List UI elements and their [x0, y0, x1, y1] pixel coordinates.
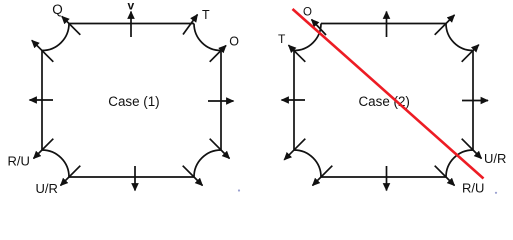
- red diagonal line (square2): [293, 9, 484, 179]
- svg-text:R/U: R/U: [8, 154, 30, 169]
- svg-text:U/R: U/R: [36, 181, 58, 196]
- arrow v (square1 top edge midpoint, points up): [130, 12, 132, 38]
- arrow square2 left edge midpoint, points left: [282, 99, 306, 101]
- svg-text:Q: Q: [52, 2, 63, 17]
- arrow square1 right edge midpoint, points right: [208, 100, 234, 102]
- corner arc square2 top-left: [294, 24, 321, 51]
- arrow O (square1 TR, right edge end, points up-right): [210, 46, 226, 62]
- arrow square2 bottom edge midpoint, points down: [386, 166, 388, 191]
- arrow square2 top edge midpoint, points up: [386, 12, 388, 38]
- wire: square1 top edge: [69, 23, 194, 25]
- wire: square2 right edge: [472, 51, 474, 151]
- wire: square2 top edge: [321, 23, 446, 25]
- wire: square1 bottom edge: [69, 176, 194, 178]
- svg-text:U/R: U/R: [484, 151, 506, 166]
- svg-text:T: T: [278, 32, 286, 46]
- arrow R/U (square2 BR, bottom edge end, points down-right): [435, 166, 455, 186]
- corner arc square2 bottom-left: [294, 150, 321, 177]
- corner arc square1 bottom-right: [194, 150, 221, 177]
- arrow square2 TR right edge end, points up-right: [462, 45, 479, 62]
- arrow U/R (square2 BR, right edge end, points down-right): [462, 139, 482, 159]
- arrow square2 BL left edge end, points down-left: [284, 139, 305, 160]
- svg-text:Case (1): Case (1): [108, 94, 159, 109]
- arrow square1 TL left edge end, points up-left: [32, 40, 54, 62]
- wire: square1 left edge: [41, 51, 43, 151]
- corner arc square1 top-right: [194, 24, 221, 51]
- corner arc square2 top-right: [446, 24, 473, 51]
- wire: square1 right edge: [220, 51, 222, 151]
- arrow square2 right edge midpoint, points right: [462, 100, 488, 102]
- stray dot near square1: [238, 189, 240, 191]
- svg-text:T: T: [202, 8, 210, 22]
- wire: square2 left edge: [293, 51, 295, 151]
- arrow square1 BR right edge end, points down-right: [210, 139, 230, 159]
- stray dot near square2: [495, 192, 497, 194]
- corner arc square1 top-left: [42, 24, 69, 51]
- arrow O (square2 TL, top edge end, points up-left): [312, 20, 327, 36]
- corner arc square2 bottom-right: [446, 150, 473, 177]
- svg-text:O: O: [303, 7, 312, 19]
- arrow square1 left edge midpoint, points left: [30, 99, 54, 101]
- arrow square1 bottom edge midpoint, points down: [134, 166, 136, 191]
- arrow square1 BR bottom edge end, points down-right: [183, 166, 203, 186]
- arrow U/R (square1 BL, bottom edge end, points down-left): [61, 166, 81, 186]
- wire: square2 bottom edge: [321, 176, 446, 178]
- arrow square2 TR top edge end, points up-right: [435, 15, 455, 35]
- svg-text:R/U: R/U: [462, 180, 484, 195]
- svg-text:O: O: [229, 35, 239, 49]
- arrow square2 BL bottom edge end, points down-left: [313, 166, 333, 186]
- corner arc square1 bottom-left: [42, 150, 69, 177]
- arrow R/U (square1 BL, left edge end, points down-left): [34, 139, 54, 159]
- arrow T (square1 TR, top edge end, points up-right): [183, 15, 198, 35]
- arrow Q (square1 TL, top edge end, points up-left): [62, 16, 81, 35]
- svg-text:v: v: [128, 0, 135, 13]
- arrow T (square2 TL, left edge end, points up-left): [289, 45, 306, 62]
